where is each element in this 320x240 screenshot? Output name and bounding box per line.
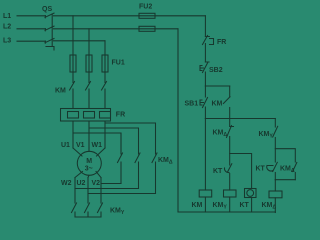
svg-text:KMΔ: KMΔ	[280, 166, 295, 175]
svg-text:KMY: KMY	[110, 208, 125, 217]
svg-text:L1: L1	[3, 13, 11, 20]
svg-text:KMY: KMY	[259, 131, 274, 140]
svg-text:FR: FR	[217, 39, 226, 46]
svg-text:M: M	[86, 158, 92, 165]
svg-text:KM: KM	[212, 101, 223, 108]
svg-text:KMY: KMY	[213, 202, 228, 211]
svg-text:SB1: SB1	[185, 101, 199, 108]
svg-text:KT: KT	[256, 166, 266, 173]
svg-text:QS: QS	[42, 6, 52, 13]
svg-text:L2: L2	[3, 24, 11, 31]
svg-text:FR: FR	[116, 112, 125, 119]
svg-text:V1: V1	[76, 142, 85, 149]
svg-text:KT: KT	[213, 168, 223, 175]
svg-text:KM: KM	[192, 202, 203, 209]
svg-text:FU2: FU2	[139, 4, 152, 11]
svg-text:KM: KM	[55, 88, 66, 95]
svg-text:3~: 3~	[85, 165, 93, 172]
svg-text:FU1: FU1	[112, 60, 125, 67]
svg-text:L3: L3	[3, 37, 11, 44]
svg-text:KMΔ: KMΔ	[158, 157, 173, 166]
svg-text:U1: U1	[61, 142, 70, 149]
svg-text:W2: W2	[61, 180, 72, 187]
svg-text:V2: V2	[92, 180, 101, 187]
svg-text:W1: W1	[92, 142, 103, 149]
svg-text:KMΔ: KMΔ	[262, 202, 277, 211]
svg-text:KT: KT	[240, 202, 250, 209]
svg-text:KMΔ: KMΔ	[213, 130, 228, 139]
svg-text:U2: U2	[77, 180, 86, 187]
svg-text:SB2: SB2	[209, 67, 223, 74]
